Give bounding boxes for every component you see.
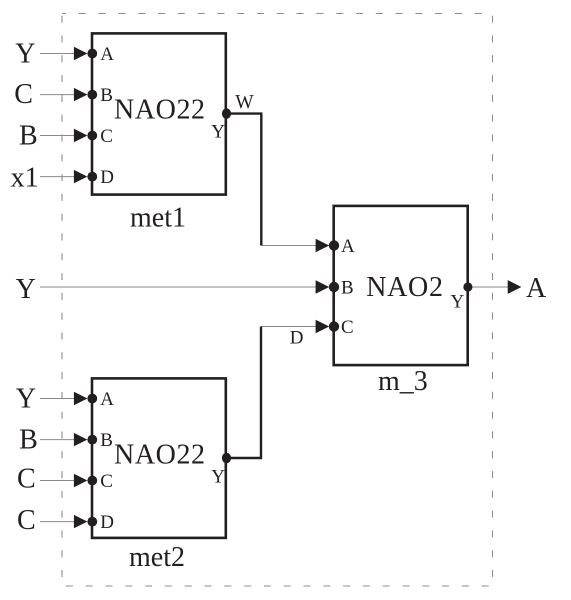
svg-text:D: D [100,512,114,533]
svg-text:W: W [235,92,254,113]
svg-text:C: C [17,464,36,495]
svg-text:B: B [19,121,38,152]
svg-text:B: B [100,85,113,106]
svg-text:A: A [526,273,547,304]
svg-text:NAO22: NAO22 [114,440,206,471]
svg-text:NAO22: NAO22 [114,95,206,126]
svg-text:m_3: m_3 [378,366,428,397]
svg-text:D: D [290,328,304,349]
svg-text:Y: Y [211,121,225,142]
svg-text:C: C [341,317,354,338]
svg-text:met1: met1 [130,202,186,233]
svg-text:A: A [341,236,355,257]
svg-text:B: B [100,430,113,451]
svg-text:B: B [19,424,38,455]
svg-text:Y: Y [211,466,225,487]
svg-text:x1: x1 [11,162,39,193]
svg-text:B: B [341,278,354,299]
svg-text:Y: Y [451,292,465,313]
svg-text:Y: Y [15,38,35,69]
svg-text:A: A [100,389,114,410]
svg-text:Y: Y [16,274,36,305]
svg-text:C: C [100,126,113,147]
svg-text:C: C [14,79,33,110]
svg-text:A: A [100,44,114,65]
svg-text:D: D [100,167,114,188]
svg-text:Y: Y [16,384,36,415]
svg-text:C: C [100,471,113,492]
svg-text:NAO2: NAO2 [366,272,443,303]
svg-text:C: C [17,505,36,536]
svg-text:met2: met2 [129,542,185,573]
